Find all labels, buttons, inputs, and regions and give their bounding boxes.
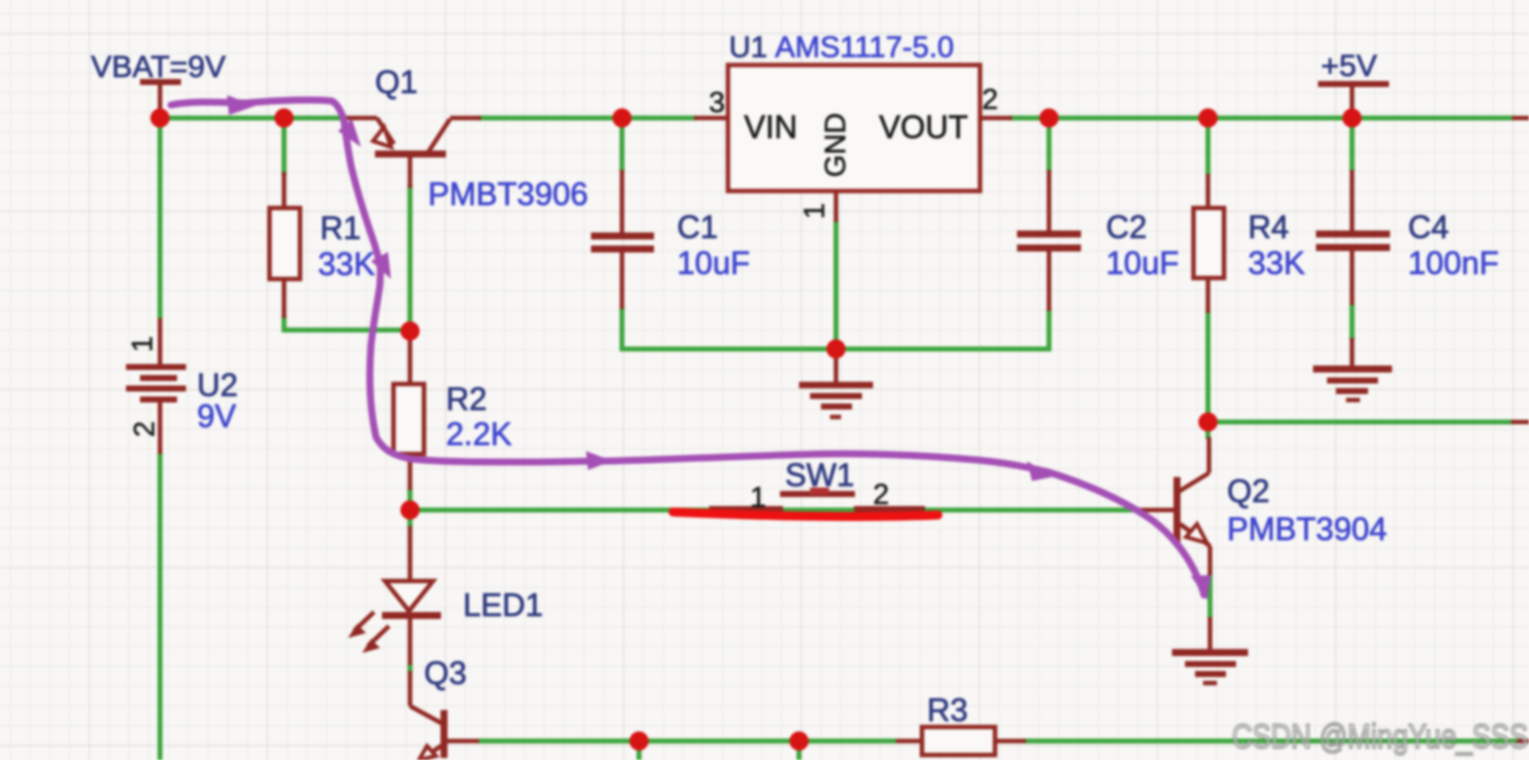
resistor R1 bbox=[270, 172, 375, 318]
svg-text:10uF: 10uF bbox=[1106, 245, 1179, 281]
battery U2 bbox=[126, 318, 238, 454]
ground under Q2 bbox=[1172, 653, 1248, 684]
capacitor C4 bbox=[1316, 170, 1499, 305]
svg-text:R2: R2 bbox=[446, 381, 487, 417]
svg-text:C1: C1 bbox=[677, 209, 718, 245]
transistor Q1 bbox=[340, 64, 588, 212]
watermark bbox=[1232, 718, 1528, 756]
svg-text:VBAT=9V: VBAT=9V bbox=[91, 49, 226, 84]
svg-text:33K: 33K bbox=[1248, 245, 1305, 281]
wire ground rail bbox=[620, 347, 1051, 352]
junction at C1 top bbox=[612, 108, 631, 127]
svg-text:VIN: VIN bbox=[744, 109, 797, 145]
wire C4 top bbox=[1350, 118, 1355, 172]
svg-text:PMBT3906: PMBT3906 bbox=[428, 176, 588, 212]
svg-text:2: 2 bbox=[982, 84, 998, 116]
annotation purple arrowheads bbox=[227, 95, 1211, 600]
wire bottom rail right bbox=[1024, 739, 1519, 744]
svg-text:VOUT: VOUT bbox=[879, 109, 968, 145]
power port +5V bbox=[1318, 48, 1389, 114]
capacitor C1 bbox=[591, 170, 750, 309]
svg-text:LED1: LED1 bbox=[463, 587, 543, 623]
wire C2 bottom bbox=[1047, 309, 1052, 351]
svg-text:C2: C2 bbox=[1106, 209, 1147, 245]
svg-text:GND: GND bbox=[820, 113, 852, 177]
wire C2 top bbox=[1047, 118, 1052, 172]
junction at C2 top bbox=[1039, 108, 1058, 127]
regulator U1 bbox=[694, 31, 1012, 222]
wire Q1 base bbox=[408, 185, 413, 331]
svg-text:CSDN @MingYue_SSS: CSDN @MingYue_SSS bbox=[1232, 718, 1528, 756]
wire R1 top bbox=[282, 118, 287, 176]
wire U1 gnd pin bbox=[834, 221, 839, 351]
annotation red underline bbox=[673, 512, 938, 516]
junction at +5V node bbox=[1342, 108, 1361, 127]
wire red stub right edge bbox=[1517, 739, 1529, 744]
ground under C4 bbox=[1313, 338, 1392, 400]
svg-text:Q1: Q1 bbox=[375, 64, 418, 100]
junction bottom rail A bbox=[629, 731, 648, 750]
wire red stub right rail bbox=[1511, 420, 1529, 425]
junction at U1 GND bbox=[826, 339, 845, 358]
svg-text:R4: R4 bbox=[1248, 209, 1289, 245]
resistor R3 bbox=[896, 692, 1026, 755]
wire battery top bbox=[158, 118, 163, 318]
wire top rail left bbox=[160, 116, 343, 121]
svg-text:2.2K: 2.2K bbox=[446, 416, 512, 452]
transistor Q3 bbox=[410, 655, 479, 760]
junction at R1 top bbox=[274, 108, 293, 127]
svg-text:1: 1 bbox=[127, 336, 159, 352]
wire stub node B bbox=[797, 741, 802, 760]
svg-text:33K: 33K bbox=[318, 246, 375, 282]
svg-text:SW1: SW1 bbox=[785, 457, 854, 493]
wire C1 bottom bbox=[620, 307, 625, 351]
svg-text:100nF: 100nF bbox=[1408, 245, 1499, 281]
svg-text:R1: R1 bbox=[320, 210, 361, 246]
annotation purple stroke bbox=[171, 100, 1204, 595]
wire LED to Q3 bbox=[408, 663, 413, 673]
svg-text:3: 3 bbox=[709, 87, 725, 119]
svg-text:2: 2 bbox=[129, 421, 161, 437]
svg-text:+5V: +5V bbox=[1321, 48, 1377, 83]
svg-text:1: 1 bbox=[799, 203, 831, 219]
wire battery bottom bbox=[158, 452, 163, 760]
svg-text:10uF: 10uF bbox=[677, 245, 750, 281]
svg-text:Q3: Q3 bbox=[424, 655, 467, 691]
svg-text:R3: R3 bbox=[927, 692, 968, 728]
wire right rail bbox=[1208, 420, 1512, 425]
junction at R4 bottom / Q2 collector bbox=[1198, 412, 1217, 431]
wire switch row bbox=[410, 508, 1140, 513]
resistor R2 bbox=[394, 334, 512, 490]
svg-text:1: 1 bbox=[750, 482, 766, 514]
svg-text:Q2: Q2 bbox=[1227, 473, 1270, 509]
junction bottom rail B bbox=[789, 731, 808, 750]
wire R4 top bbox=[1206, 118, 1211, 176]
junction at VBAT node bbox=[150, 108, 169, 127]
wire top rail middle bbox=[478, 116, 697, 121]
junction at Q1 base / R2 top bbox=[400, 321, 419, 340]
wire Q2 emitter bbox=[1208, 573, 1213, 617]
svg-text:PMBT3904: PMBT3904 bbox=[1227, 511, 1387, 547]
transistor Q2 bbox=[1140, 437, 1387, 651]
wire R1 bottom elbow bbox=[284, 315, 407, 330]
svg-text:2: 2 bbox=[873, 479, 889, 511]
resistor R4 bbox=[1194, 174, 1305, 313]
power port VBAT bbox=[91, 49, 226, 114]
svg-text:C4: C4 bbox=[1408, 209, 1449, 245]
wire top rail right bbox=[1009, 116, 1513, 121]
junction at R2 bottom / SW1 wire bbox=[400, 500, 419, 519]
wire C4 bottom bbox=[1350, 303, 1355, 340]
wire R2 bottom bbox=[408, 488, 413, 528]
wire red stub top right bbox=[1512, 116, 1529, 121]
svg-text:U1: U1 bbox=[729, 31, 767, 64]
svg-text:AMS1117-5.0: AMS1117-5.0 bbox=[775, 31, 954, 64]
wire C1 top bbox=[620, 118, 625, 172]
wire R4 bottom to Q2 bbox=[1206, 311, 1211, 439]
wire stub node A bbox=[637, 741, 642, 760]
svg-text:9V: 9V bbox=[197, 398, 237, 434]
switch SW1 bbox=[709, 457, 925, 514]
LED LED1 bbox=[348, 526, 543, 665]
capacitor C2 bbox=[1017, 170, 1179, 311]
junction at R4 top bbox=[1198, 108, 1217, 127]
ground under U1 bbox=[799, 349, 873, 417]
wire bottom rail left bbox=[478, 739, 896, 744]
